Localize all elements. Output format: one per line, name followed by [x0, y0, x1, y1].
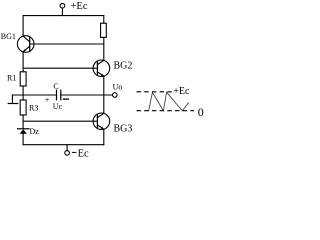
svg-text:R1: R1 — [7, 73, 16, 82]
transistor BG3 — [93, 113, 110, 145]
svg-text:+: + — [45, 94, 50, 104]
wire BG2 base — [23, 67, 97, 69]
wire bottom rail — [23, 144, 104, 146]
diode Dz — [18, 129, 29, 145]
wire top rail — [23, 15, 104, 17]
transistor BG2 — [93, 60, 110, 77]
waveform sawtooth — [149, 92, 189, 111]
resistor R1 — [20, 72, 26, 100]
svg-text:BG2: BG2 — [114, 61, 133, 72]
terminal +Ec — [60, 3, 65, 8]
node minus label — [63, 98, 68, 100]
waveform top dashed line — [137, 91, 173, 93]
wire BG3 base — [23, 120, 97, 122]
ground — [8, 95, 18, 104]
svg-text:C: C — [53, 82, 58, 91]
wire BG2 emitter trunk — [103, 76, 105, 113]
wire cap to Uo — [61, 94, 113, 96]
svg-text:Dz: Dz — [30, 127, 40, 136]
svg-text:R3: R3 — [29, 104, 38, 113]
svg-text:Uo: Uo — [113, 83, 123, 92]
resistor R3 — [20, 100, 26, 129]
svg-text:BG1: BG1 — [1, 32, 16, 41]
transistor BG1 — [17, 16, 34, 72]
node -Ec label — [72, 148, 89, 159]
wire +Ec lead — [61, 8, 63, 16]
capacitor C — [57, 90, 61, 100]
waveform bottom dashed line — [137, 110, 195, 112]
svg-text:+Ec: +Ec — [71, 1, 88, 12]
svg-text:BG3: BG3 — [114, 123, 133, 134]
terminal Uo — [113, 93, 118, 98]
wire cap node — [12, 94, 56, 96]
svg-text:Uc: Uc — [53, 102, 63, 111]
svg-text:Ec: Ec — [78, 148, 89, 159]
wire -Ec lead — [66, 145, 68, 151]
wire BG1 base to R bottom — [30, 43, 104, 45]
svg-text:0: 0 — [198, 105, 204, 119]
resistor R top — [103, 16, 105, 24]
terminal -Ec — [65, 151, 70, 156]
svg-text:+Ec: +Ec — [173, 86, 190, 97]
